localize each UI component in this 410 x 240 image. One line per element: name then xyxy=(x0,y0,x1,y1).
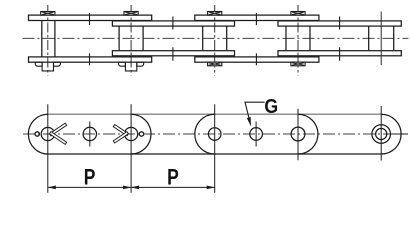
svg-text:P: P xyxy=(84,166,96,190)
svg-text:P: P xyxy=(167,166,179,190)
svg-text:G: G xyxy=(264,96,278,118)
